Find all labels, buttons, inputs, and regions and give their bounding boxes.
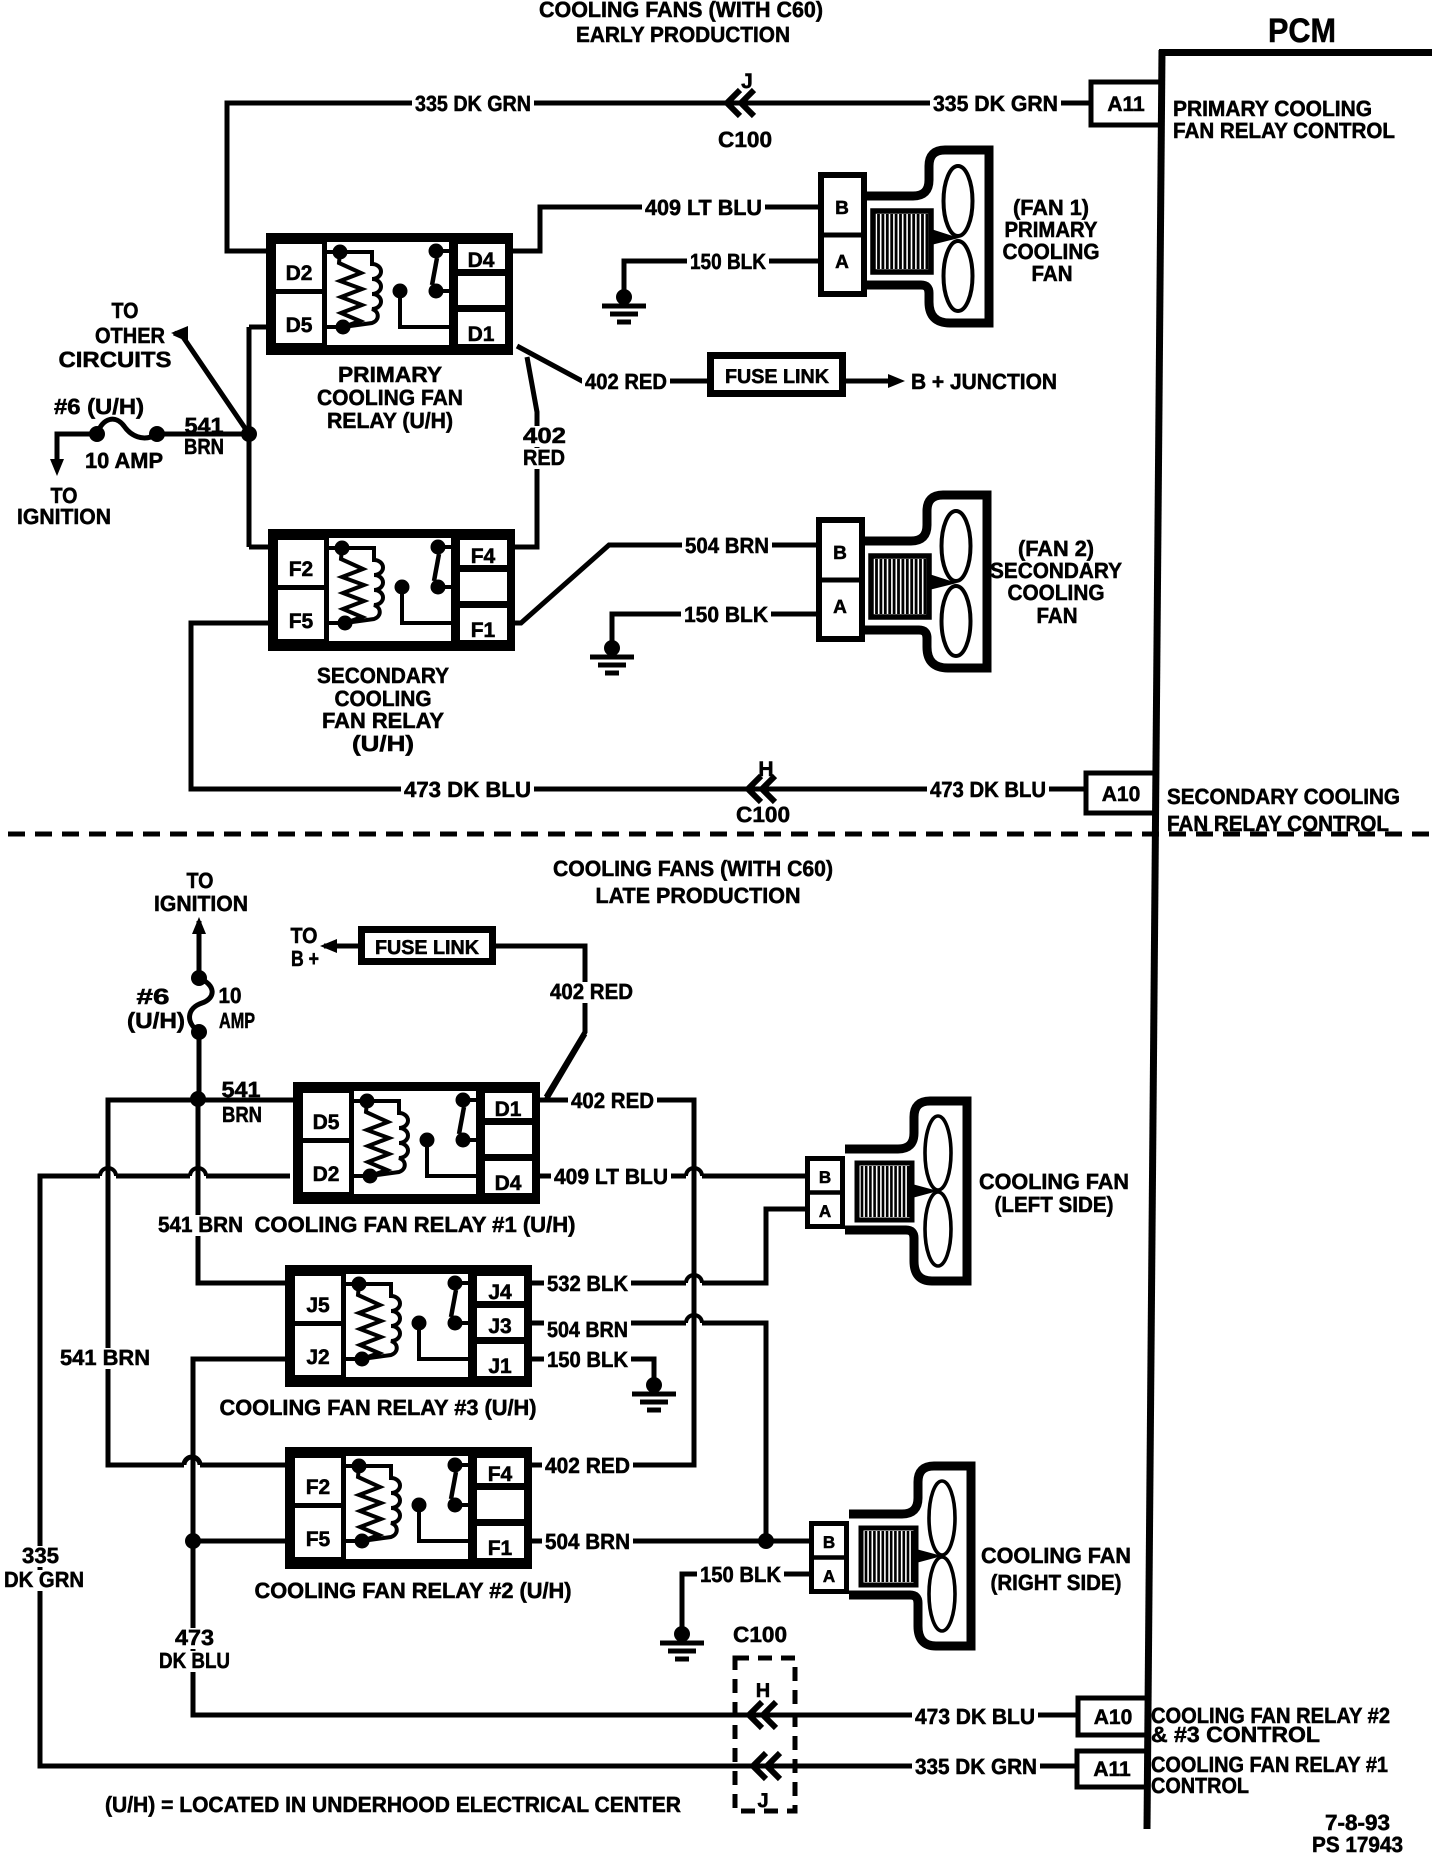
fan spindle <box>912 1184 938 1198</box>
svg-text:IGNITION: IGNITION <box>154 891 248 916</box>
label 335 DK GRN (vertical) <box>1 1543 87 1592</box>
wire to ignition <box>192 917 206 978</box>
junction node 541 BRN <box>241 426 257 442</box>
label B + JUNCTION <box>911 369 1057 394</box>
relay outer box <box>272 533 512 648</box>
label 473 DK BLU (right) <box>927 777 1049 802</box>
relay switch contact <box>431 540 446 555</box>
label 541 BRN (relay 1) <box>222 1077 263 1127</box>
relay: cooling fan relay #3 (U/H) <box>289 1269 529 1384</box>
svg-text:A: A <box>823 1567 835 1586</box>
svg-text:C100: C100 <box>736 802 790 827</box>
relay right pin column <box>475 1274 527 1304</box>
svg-text:J4: J4 <box>488 1281 512 1304</box>
svg-text:B + JUNCTION: B + JUNCTION <box>911 369 1057 394</box>
label 473 DK BLU (bottom) <box>912 1704 1038 1729</box>
svg-text:F4: F4 <box>471 545 496 568</box>
svg-text:150 BLK: 150 BLK <box>684 602 768 627</box>
fan shroud outline <box>865 495 987 668</box>
label 150 BLK (fan 2) <box>681 602 771 627</box>
svg-text:(U/H) = LOCATED IN UNDERHOOD: (U/H) = LOCATED IN UNDERHOOD ELECTRICAL … <box>105 1792 681 1817</box>
relay common contact <box>420 1133 435 1148</box>
svg-text:SECONDARY COOLING: SECONDARY COOLING <box>1167 784 1400 809</box>
label COOLING FAN RELAY #3 (U/H) <box>220 1395 537 1420</box>
svg-text:10 AMP: 10 AMP <box>85 448 163 473</box>
label 473 DK BLU (vertical) <box>156 1625 233 1673</box>
relay: cooling fan relay #2 (U/H) <box>289 1451 529 1566</box>
svg-text:#6 (U/H): #6 (U/H) <box>54 394 144 419</box>
fan connector B/A <box>808 1159 843 1227</box>
relay outer box <box>297 1086 537 1201</box>
fan motor <box>861 1528 916 1585</box>
relay inner box <box>352 1089 479 1197</box>
svg-text:532 BLK: 532 BLK <box>547 1271 628 1296</box>
label 504 BRN (F1) <box>542 1529 633 1554</box>
ground (relay 3) <box>632 1377 676 1410</box>
svg-text:335 DK GRN: 335 DK GRN <box>415 91 531 116</box>
fan shroud outline <box>845 1101 967 1281</box>
svg-text:541: 541 <box>222 1077 261 1102</box>
label SECONDARY COOLING FAN RELAY CONTROL <box>1167 784 1400 836</box>
wire 504 BRN <box>510 545 816 623</box>
fan blades <box>925 1116 951 1190</box>
svg-text:RED: RED <box>523 445 565 470</box>
svg-text:D2: D2 <box>286 262 313 285</box>
wire 541 BRN to relay 1 D5 <box>198 1098 298 1103</box>
svg-text:409 LT BLU: 409 LT BLU <box>645 195 762 220</box>
svg-text:COOLING FANS (WITH C60): COOLING FANS (WITH C60) <box>553 856 833 881</box>
motor: primary cooling fan (FAN 1) <box>818 150 989 323</box>
fan spindle <box>931 229 959 245</box>
svg-text:504 BRN: 504 BRN <box>545 1529 630 1554</box>
relay switch contact <box>448 1276 463 1291</box>
svg-text:(RIGHT SIDE): (RIGHT SIDE) <box>991 1570 1122 1595</box>
title: early production <box>539 0 823 47</box>
fan motor <box>871 556 929 617</box>
fan connector B/A <box>819 520 862 639</box>
svg-text:PS 17943: PS 17943 <box>1312 1832 1403 1856</box>
relay inner box <box>327 536 454 644</box>
relay right pin column <box>458 538 510 568</box>
label 150 BLK (J1) <box>544 1347 631 1372</box>
ground (fan 2) <box>590 640 634 673</box>
label 504 BRN <box>682 533 772 558</box>
section separator (dashed) <box>8 832 1434 837</box>
fan shroud outline <box>867 150 989 323</box>
label 402 RED <box>582 369 670 394</box>
svg-text:COOLING FANS (WITH C60): COOLING FANS (WITH C60) <box>539 0 823 22</box>
relay common contact <box>412 1316 427 1331</box>
junction node 541 BRN (late) <box>190 1091 206 1107</box>
svg-text:D4: D4 <box>468 249 495 272</box>
wire 402 RED (relay 1 D1 to relay 2 F4) <box>532 1034 694 1465</box>
label 10 AMP (late) <box>219 983 256 1033</box>
wire 504 BRN (relay 3 J3) <box>530 1315 766 1541</box>
svg-text:A11: A11 <box>1093 1758 1131 1781</box>
relay left pin column <box>293 1274 344 1378</box>
svg-text:J3: J3 <box>488 1315 511 1338</box>
svg-text:D2: D2 <box>313 1163 340 1186</box>
wire 473 DK BLU (relay 2/3 control) <box>185 1359 1078 1715</box>
svg-text:B: B <box>823 1533 835 1552</box>
svg-text:(U/H): (U/H) <box>352 731 414 756</box>
label 504 BRN (J3) <box>544 1317 631 1342</box>
wire 150 BLK (relay 3 J1) <box>530 1359 654 1381</box>
relay left pin column <box>276 538 327 642</box>
wire 402 RED to fuse link <box>517 346 709 381</box>
wire 504 BRN (relay 2 F1 to right fan) <box>532 1533 809 1549</box>
relay outer box <box>289 1269 529 1384</box>
relay left pin column <box>274 242 325 346</box>
relay outer box <box>270 237 510 352</box>
svg-text:473 DK BLU: 473 DK BLU <box>404 777 531 802</box>
relay inner box <box>325 240 452 348</box>
svg-text:150 BLK: 150 BLK <box>547 1347 628 1372</box>
svg-text:COOLING FAN RELAY #1 (U/H): COOLING FAN RELAY #1 (U/H) <box>255 1212 576 1237</box>
svg-text:409 LT BLU: 409 LT BLU <box>554 1164 668 1189</box>
label 335 DK GRN (right) <box>930 91 1061 116</box>
svg-text:LATE PRODUCTION: LATE PRODUCTION <box>596 883 801 908</box>
label 409 LT BLU <box>642 195 765 220</box>
svg-text:F1: F1 <box>488 1537 513 1560</box>
label 409 LT BLU (late) <box>551 1164 671 1189</box>
wire 541 BRN trunk to relay 3 J5 <box>198 1099 290 1283</box>
relay common contact <box>395 580 410 595</box>
label TO B+ <box>291 923 320 971</box>
svg-text:(U/H): (U/H) <box>127 1008 185 1033</box>
svg-text:J5: J5 <box>306 1294 330 1317</box>
svg-text:402 RED: 402 RED <box>571 1088 654 1113</box>
relay common contact <box>393 284 408 299</box>
svg-text:BRN: BRN <box>184 434 224 459</box>
fan spindle <box>916 1549 942 1563</box>
svg-text:& #3 CONTROL: & #3 CONTROL <box>1151 1722 1320 1747</box>
svg-text:FAN: FAN <box>1032 261 1073 286</box>
svg-text:DK GRN: DK GRN <box>4 1567 84 1592</box>
wire 409 LT BLU (late) <box>538 1168 805 1176</box>
connector C100 (late, dashed) <box>733 1622 795 1811</box>
wire 541 BRN branch to relay 2 F2 <box>108 1100 290 1465</box>
fan connector B/A <box>821 175 864 294</box>
svg-text:402 RED: 402 RED <box>545 1453 630 1478</box>
fan shroud outline <box>849 1466 971 1646</box>
relay: cooling fan relay #1 (U/H) <box>297 1086 537 1201</box>
label 541 BRN <box>184 413 224 459</box>
svg-text:D5: D5 <box>313 1111 340 1134</box>
svg-text:AMP: AMP <box>219 1008 255 1033</box>
relay common contact <box>412 1498 427 1513</box>
svg-text:504 BRN: 504 BRN <box>685 533 769 558</box>
svg-text:H: H <box>756 1680 770 1702</box>
svg-text:B: B <box>835 198 849 219</box>
svg-text:TO: TO <box>112 298 139 323</box>
relay right pin column <box>475 1456 527 1486</box>
PCM pin A10 (early) <box>1086 773 1156 813</box>
svg-text:A: A <box>819 1202 831 1221</box>
relay coil <box>352 1277 367 1292</box>
motor: cooling fan (right side) <box>809 1466 971 1646</box>
fan motor <box>873 211 931 272</box>
label 335 DK GRN (left) <box>412 91 534 116</box>
svg-text:B: B <box>819 1168 831 1187</box>
relay coil <box>335 541 350 556</box>
svg-text:IGNITION: IGNITION <box>17 504 111 529</box>
connector C100 chevron H (late) <box>749 1680 776 1728</box>
label COOLING FAN RELAY #2 & #3 CONTROL <box>1151 1703 1390 1747</box>
label 532 BLK <box>544 1271 631 1296</box>
label SECONDARY COOLING FAN RELAY (U/H) <box>317 663 449 756</box>
label (FAN 2) SECONDARY COOLING FAN <box>990 536 1122 628</box>
motor: cooling fan (left side) <box>805 1101 967 1281</box>
svg-text:TO: TO <box>291 923 318 948</box>
svg-text:473 DK BLU: 473 DK BLU <box>930 777 1046 802</box>
svg-text:A11: A11 <box>1107 93 1145 116</box>
svg-text:J: J <box>741 70 753 93</box>
svg-text:BRN: BRN <box>222 1102 262 1127</box>
svg-text:J2: J2 <box>306 1346 329 1369</box>
relay coil <box>360 1094 375 1109</box>
relay left pin column <box>301 1091 352 1195</box>
PCM pin A10 (late) <box>1078 1698 1148 1735</box>
label COOLING FAN RELAY #1 CONTROL <box>1151 1752 1388 1798</box>
svg-text:FAN RELAY CONTROL: FAN RELAY CONTROL <box>1173 118 1395 143</box>
fan blades <box>944 166 973 236</box>
label 541 BRN (branch) <box>57 1345 153 1370</box>
svg-text:FUSE LINK: FUSE LINK <box>725 366 830 388</box>
ground (right fan) <box>660 1626 704 1659</box>
svg-text:473 DK BLU: 473 DK BLU <box>915 1704 1035 1729</box>
relay left pin column <box>293 1456 344 1560</box>
fan blades <box>942 511 971 581</box>
connector C100 chevron J (late) <box>753 1753 780 1812</box>
svg-text:F5: F5 <box>289 610 314 633</box>
PCM pin A11 (late) <box>1077 1751 1147 1787</box>
svg-text:J1: J1 <box>488 1355 512 1378</box>
svg-text:150 BLK: 150 BLK <box>700 1562 781 1587</box>
label 150 BLK (fan 1) <box>687 249 769 274</box>
svg-text:541 BRN: 541 BRN <box>60 1345 150 1370</box>
svg-text:RELAY (U/H): RELAY (U/H) <box>327 408 453 433</box>
svg-text:C100: C100 <box>733 1622 787 1647</box>
label 541 BRN (trunk) <box>155 1212 246 1237</box>
label (FAN 1) PRIMARY COOLING FAN <box>1003 195 1100 286</box>
svg-text:A10: A10 <box>1094 1706 1133 1729</box>
label TO IGNITION (late) <box>154 868 248 916</box>
svg-text:COOLING FAN: COOLING FAN <box>979 1169 1129 1194</box>
label TO OTHER CIRCUITS <box>59 298 172 372</box>
svg-text:COOLING FAN: COOLING FAN <box>981 1543 1131 1568</box>
svg-text:C100: C100 <box>718 127 772 152</box>
wire 150 BLK (right fan) <box>682 1574 809 1630</box>
svg-text:541 BRN: 541 BRN <box>158 1212 243 1237</box>
relay inner box <box>344 1272 471 1380</box>
fan connector B/A <box>812 1524 847 1592</box>
relay: secondary cooling fan relay (U/H) <box>272 533 512 648</box>
svg-text:402 RED: 402 RED <box>550 979 633 1004</box>
svg-text:COOLING FAN RELAY #3 (U/H): COOLING FAN RELAY #3 (U/H) <box>220 1395 537 1420</box>
svg-text:CONTROL: CONTROL <box>1151 1773 1249 1798</box>
label #6 (U/H) <box>54 394 144 419</box>
svg-text:F5: F5 <box>306 1528 331 1551</box>
svg-text:CIRCUITS: CIRCUITS <box>59 347 172 372</box>
PCM boundary line <box>1147 50 1432 1829</box>
svg-text:D4: D4 <box>495 1172 522 1195</box>
wire 402 RED (relay 2 F4) label <box>542 1453 633 1478</box>
wire 402 RED from fuse link <box>496 946 585 1097</box>
relay switch contact <box>456 1093 471 1108</box>
motor: secondary cooling fan (FAN 2) <box>816 495 987 668</box>
svg-text:COOLING: COOLING <box>1008 580 1105 605</box>
svg-text:D1: D1 <box>495 1098 522 1121</box>
wire to other circuits <box>171 326 249 434</box>
svg-text:OTHER: OTHER <box>95 323 165 348</box>
svg-text:J: J <box>757 1790 768 1812</box>
label 150 BLK (right fan) <box>697 1562 784 1587</box>
svg-text:PRIMARY: PRIMARY <box>338 362 442 387</box>
svg-text:A: A <box>833 597 847 618</box>
label #6 (U/H) (late) <box>127 984 185 1033</box>
svg-text:EARLY PRODUCTION: EARLY PRODUCTION <box>576 22 790 47</box>
svg-text:FAN RELAY: FAN RELAY <box>322 708 444 733</box>
svg-text:F4: F4 <box>488 1463 513 1486</box>
label 473 DK BLU (left) <box>401 777 534 802</box>
svg-text:(LEFT SIDE): (LEFT SIDE) <box>995 1192 1114 1217</box>
label TO IGNITION (early) <box>17 483 111 529</box>
svg-text:DK BLU: DK BLU <box>159 1648 230 1673</box>
svg-text:B: B <box>833 543 847 564</box>
svg-text:D5: D5 <box>286 314 313 337</box>
label 402 RED (late mid) <box>568 1088 657 1113</box>
fuse link (late) <box>362 930 493 962</box>
svg-text:F1: F1 <box>471 619 496 642</box>
svg-text:504 BRN: 504 BRN <box>547 1317 628 1342</box>
label PRIMARY COOLING FAN RELAY (U/H) <box>317 362 463 433</box>
relay: primary cooling fan relay (U/H) <box>270 237 510 352</box>
wire 541 BRN junction to relays <box>249 327 273 547</box>
svg-text:FUSE LINK: FUSE LINK <box>375 937 480 959</box>
ground (fan 1) <box>602 289 646 322</box>
wire 335 DK GRN (early, A11 to relay D2) <box>227 103 1091 251</box>
wire 335 DK GRN (relay 1 control) <box>40 1168 1077 1766</box>
label 402 RED (late upper) <box>547 979 636 1004</box>
PCM pin A11 (early) <box>1091 82 1161 125</box>
svg-text:10: 10 <box>219 983 242 1008</box>
relay coil <box>333 245 348 260</box>
label PRIMARY COOLING FAN RELAY CONTROL <box>1173 96 1395 143</box>
svg-text:COOLING FAN RELAY #2 (U/H): COOLING FAN RELAY #2 (U/H) <box>255 1578 572 1603</box>
svg-text:335: 335 <box>22 1543 59 1568</box>
connector C100 chevron H <box>736 758 790 827</box>
PCM label <box>1268 12 1336 50</box>
wire fuse link to B+ <box>320 939 358 953</box>
fan motor <box>857 1163 912 1220</box>
svg-text:TO: TO <box>187 868 214 893</box>
label COOLING FAN (LEFT SIDE) <box>979 1169 1129 1217</box>
wire 150 BLK (fan 2) <box>612 614 816 645</box>
svg-text:PCM: PCM <box>1268 12 1336 50</box>
svg-text:150 BLK: 150 BLK <box>690 249 766 274</box>
relay inner box <box>344 1454 471 1562</box>
wire 409 LT BLU <box>513 207 818 251</box>
note (U/H) legend <box>105 1792 681 1817</box>
relay right pin column <box>483 1091 535 1121</box>
fan blades <box>929 1481 955 1555</box>
svg-text:A: A <box>835 252 849 273</box>
fuse #6 10 AMP (early) <box>50 419 249 476</box>
fuse #6 10 AMP (late) <box>190 970 213 1100</box>
label 10 AMP <box>85 448 163 473</box>
wire to B+ junction <box>846 374 905 388</box>
wire 532 BLK <box>530 1209 805 1283</box>
svg-text:402 RED: 402 RED <box>585 369 667 394</box>
svg-text:B +: B + <box>291 946 319 971</box>
svg-text:A10: A10 <box>1102 783 1141 806</box>
svg-text:F2: F2 <box>289 558 314 581</box>
svg-text:F2: F2 <box>306 1476 331 1499</box>
label 402 RED (vertical) <box>520 423 569 470</box>
svg-text:H: H <box>758 758 773 781</box>
svg-text:335 DK GRN: 335 DK GRN <box>915 1754 1037 1779</box>
wire 150 BLK (fan 1) <box>624 261 818 294</box>
label COOLING FAN (RIGHT SIDE) <box>981 1543 1131 1595</box>
connector C100 chevron J <box>718 70 772 152</box>
svg-text:473: 473 <box>175 1625 214 1650</box>
label COOLING FAN RELAY #1 (U/H) <box>255 1212 576 1237</box>
fuse link (early) <box>711 356 843 394</box>
svg-text:335 DK GRN: 335 DK GRN <box>933 91 1058 116</box>
wire 473 DK BLU (secondary relay control) <box>191 623 1086 789</box>
title: late production <box>553 856 833 908</box>
label date 7-8-93 PS 17943 <box>1312 1810 1403 1856</box>
wire 402 RED down to secondary relay F4 <box>510 357 537 547</box>
svg-text:FAN: FAN <box>1037 603 1078 628</box>
relay switch contact <box>429 244 444 259</box>
label COOLING FAN RELAY #2 (U/H) <box>255 1578 572 1603</box>
svg-text:SECONDARY: SECONDARY <box>317 663 449 688</box>
svg-text:COOLING FAN: COOLING FAN <box>317 385 463 410</box>
relay right pin column <box>456 242 508 272</box>
relay outer box <box>289 1451 529 1566</box>
svg-text:D1: D1 <box>468 323 495 346</box>
relay switch contact <box>448 1458 463 1473</box>
label 335 DK GRN (bottom) <box>912 1754 1040 1779</box>
svg-text:#6: #6 <box>137 984 170 1009</box>
relay coil <box>352 1459 367 1474</box>
fan spindle <box>929 574 957 590</box>
